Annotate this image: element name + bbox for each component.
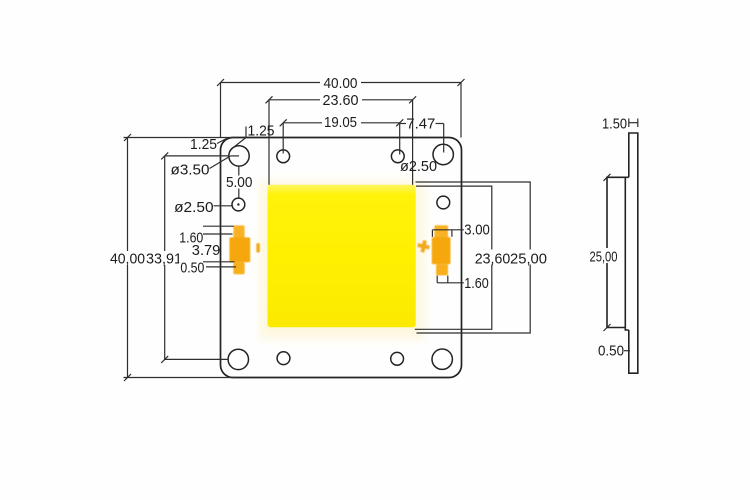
svg-text:25,00: 25,00 [510,251,547,268]
svg-text:33,91: 33,91 [146,251,182,268]
label ø2.50 (mid-left) with leader [214,205,232,207]
svg-text:1.25: 1.25 [248,123,275,140]
svg-text:7.47: 7.47 [406,116,435,133]
right vertical dimension 25.00 bracket [416,182,531,333]
dimension 5.00 (hole spacing) [238,166,240,198]
dimension 0.50 (side, bottom step) [624,350,630,352]
svg-text:ø2.50: ø2.50 [400,158,437,175]
svg-text:1.60: 1.60 [464,275,489,292]
right electrode pad (positive) [432,225,451,275]
label 1.25 (top, vertical offset) [232,127,247,150]
small hole mid-right (ø2.50) [437,196,450,209]
svg-text:0.50: 0.50 [598,343,624,360]
phosphor halo [260,181,424,339]
dimension 33.91 left vertical [161,152,228,363]
small hole bottom-right (ø2.50) [391,352,404,365]
mounting hole bottom-left (ø3.50) [228,349,248,369]
module outline [221,138,462,378]
svg-text:23,60: 23,60 [475,251,511,268]
dimension 40.00 left vertical [124,134,236,381]
svg-text:25,00: 25,00 [590,249,618,266]
small hole top-left (ø2.50) [277,150,290,163]
dimension 23.60 top [266,96,417,185]
label ø3.50 with leader [210,156,240,169]
mounting hole top-left (ø3.50) [229,146,249,166]
svg-text:40.00: 40.00 [324,75,358,92]
dimension 40.00 top [217,79,465,138]
small hole mid-left (ø2.50) with centre dot [232,198,245,211]
LED emitting area [268,185,416,327]
left electrode dimension lines [203,226,236,267]
negative polarity dash [256,243,260,253]
dimension 7.47 [400,124,444,153]
svg-text:23.60: 23.60 [323,92,359,109]
small hole bottom-left (ø2.50) [277,352,290,365]
right vertical dimension 23.60 bracket [415,186,492,329]
dimension 25,00 (side) with end slashes [604,174,611,331]
label 0.50 (left electrode) [179,263,206,275]
mounting hole bottom-right (ø3.50) [432,349,452,369]
dimension 1.60 (right electrode) [437,276,464,283]
svg-text:ø2.50: ø2.50 [174,199,214,216]
svg-text:3.00: 3.00 [464,222,490,239]
svg-text:ø3.50: ø3.50 [171,162,210,179]
svg-text:19.05: 19.05 [324,114,357,131]
svg-text:1.25: 1.25 [190,136,217,153]
side view profile [607,133,638,373]
left electrode pad (negative) [229,225,250,274]
svg-text:5.00: 5.00 [226,174,253,191]
small hole top-right (ø2.50) [391,150,404,163]
svg-text:3.79: 3.79 [192,242,221,259]
dimension 19.05 [280,119,404,154]
mounting hole top-right (ø3.50) [433,144,453,164]
positive polarity plus [416,239,430,253]
svg-text:0.50: 0.50 [180,259,204,276]
svg-text:1.50: 1.50 [602,116,627,133]
dimension 3.00 (right electrode) [432,230,464,237]
svg-text:40,00: 40,00 [110,251,145,268]
label 1.25 (left, horizontal offset) [217,139,227,144]
dimension 1.50 (side, plate thickness) [629,119,638,128]
